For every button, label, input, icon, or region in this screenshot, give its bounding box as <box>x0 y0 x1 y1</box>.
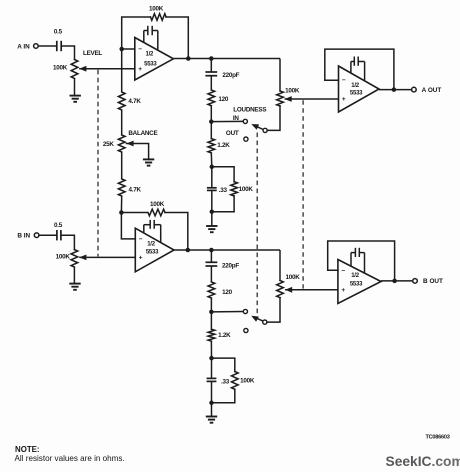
input terminal B IN <box>17 233 38 240</box>
capacitor C6 .33 (parallel B) <box>207 358 230 403</box>
ganging dashed link: level pots R1/R6 <box>97 70 99 257</box>
svg-text:1/2: 1/2 <box>351 273 360 279</box>
svg-text:220pF: 220pF <box>222 72 239 79</box>
wire R14 to parallel RC node <box>210 341 212 358</box>
potentiometer R4 25K BALANCE <box>103 130 158 152</box>
switch S1 arm with arrow (common to IN) <box>251 124 263 130</box>
svg-text:1/2: 1/2 <box>146 51 155 57</box>
svg-text:100K: 100K <box>285 274 300 281</box>
compensation capacitor on A1 <box>144 26 158 50</box>
svg-text:1.2K: 1.2K <box>218 332 231 339</box>
wire A1 output <box>173 58 280 60</box>
wire branch to R10 (top) <box>212 167 234 182</box>
svg-text:5533: 5533 <box>146 249 159 255</box>
svg-text:−: − <box>139 236 143 243</box>
svg-text:5533: 5533 <box>144 61 157 67</box>
svg-text:BALANCE: BALANCE <box>128 130 157 137</box>
resistor R2 100K feedback of A1 <box>149 6 166 21</box>
svg-text:B IN: B IN <box>17 233 30 240</box>
wire balance pot to R5 <box>121 152 123 179</box>
junction output to tone network B <box>209 248 214 253</box>
wire C4 to level pot R6 top <box>61 235 75 249</box>
capacitor C4 0.5 with value label <box>54 222 63 241</box>
svg-text:B OUT: B OUT <box>423 278 443 285</box>
svg-text:A OUT: A OUT <box>422 87 442 94</box>
svg-text:−: − <box>138 46 142 53</box>
ground at balance wiper <box>143 159 154 165</box>
wire 4.7K chain from A1 inverting node down <box>121 49 123 92</box>
svg-text:4.7K: 4.7K <box>129 186 142 193</box>
svg-text:0.5: 0.5 <box>54 222 63 229</box>
ground below R6 <box>69 284 80 290</box>
op-amp A1 1/2 5533 <box>135 38 174 81</box>
compensation capacitor on A4 <box>351 248 365 273</box>
output terminal B OUT <box>413 278 443 285</box>
junction parallel RC bottom A <box>210 209 215 214</box>
feedback wire of A4 (unity gain loop) <box>328 241 395 281</box>
output terminal A OUT <box>412 87 442 94</box>
svg-text:+: + <box>342 96 346 103</box>
wire S1 common to loudness pot R8 bottom <box>267 106 280 130</box>
svg-text:100K: 100K <box>56 253 71 260</box>
resistor R5 4.7K <box>118 179 141 196</box>
feedback loop wire of A2 (right side) <box>165 213 188 251</box>
wire R7 to switch node A <box>210 106 212 122</box>
wire C5 to R12 <box>210 266 212 282</box>
wire to ground (tone network B) <box>211 403 213 417</box>
svg-text:All resistor values are in ohm: All resistor values are in ohms. <box>15 454 125 463</box>
compensation capacitor on A2 <box>144 220 161 243</box>
ground of tone network B <box>206 417 217 423</box>
figure number TC086603 <box>425 434 449 440</box>
ground below R1 <box>70 96 81 102</box>
svg-text:OUT: OUT <box>226 130 239 137</box>
svg-text:100K: 100K <box>53 64 68 71</box>
ground of tone network A <box>206 226 217 232</box>
svg-text:LOUDNESS: LOUDNESS <box>233 106 266 113</box>
svg-text:1/2: 1/2 <box>351 83 360 89</box>
wire A3 output to terminal <box>379 89 412 91</box>
wire A2 output to R13 top <box>279 250 281 281</box>
svg-text:SeekIC.com: SeekIC.com <box>386 454 460 469</box>
wiper arrow of R1 to op-amp A1 non-inverting input (wire) <box>79 66 135 72</box>
potentiometer R13 100K (loudness B) <box>277 274 301 298</box>
capacitor C1 0.5 with value label <box>54 29 63 52</box>
svg-text:.33: .33 <box>219 187 228 194</box>
resistor R9 1.2K <box>208 139 230 153</box>
SeekIC.com watermark <box>386 454 460 469</box>
svg-text:+: + <box>139 255 143 262</box>
svg-text:25K: 25K <box>103 141 115 148</box>
svg-text:100K: 100K <box>150 201 165 208</box>
wire A IN to C1 <box>38 45 57 47</box>
svg-text:−: − <box>341 267 345 274</box>
R8 wiper arrow wire to buffer A3 + input <box>285 96 339 102</box>
svg-text:NOTE:: NOTE: <box>15 445 40 454</box>
note text <box>15 445 125 463</box>
wire branch to R15 (top) <box>212 358 235 371</box>
junction switch node A <box>209 119 214 124</box>
feedback loop wire of op-amp A1 (left+top) <box>122 17 151 49</box>
wire switch node A down to R9 <box>210 122 212 139</box>
svg-text:220pF: 220pF <box>222 262 239 269</box>
svg-text:100K: 100K <box>239 186 254 193</box>
switch S1 OUT contact <box>244 137 248 141</box>
switch S1 common contact <box>263 128 267 132</box>
wire R15 bottom branch <box>212 389 235 403</box>
wire node to A1 inverting input <box>122 48 135 50</box>
svg-text:100K: 100K <box>285 87 300 94</box>
svg-text:1/2: 1/2 <box>147 242 156 248</box>
svg-text:LEVEL: LEVEL <box>83 50 102 57</box>
capacitor C3 .33 (parallel A) <box>207 167 228 212</box>
resistor R15 100K (parallel B) <box>232 372 255 390</box>
wire R5 down to op-amp A2 feedback tap <box>120 196 122 213</box>
junction A3 output <box>392 87 397 92</box>
wire A1 output to R8 top <box>279 59 281 92</box>
wire node to switch S1 IN contact <box>211 120 243 122</box>
wire A4 output to terminal <box>381 280 413 282</box>
switch S2 IN contact <box>243 309 247 313</box>
svg-text:TC086603: TC086603 <box>425 434 449 440</box>
svg-text:0.5: 0.5 <box>54 29 63 36</box>
svg-text:.33: .33 <box>221 378 230 385</box>
potentiometer R6 100K (B level control) <box>56 250 78 267</box>
svg-text:1.2K: 1.2K <box>217 142 230 149</box>
capacitor C5 220pF <box>206 262 240 269</box>
switch S2 common contact <box>263 320 267 324</box>
svg-text:IN: IN <box>233 115 239 122</box>
feedback loop wire of A1 (right side) <box>166 17 188 59</box>
resistor R10 100K (parallel A) <box>231 182 254 196</box>
svg-text:A IN: A IN <box>17 43 30 50</box>
svg-text:4.7K: 4.7K <box>128 98 141 105</box>
wire A2 output <box>174 249 280 251</box>
op-amp A3 buffer 1/2 5533 <box>339 66 380 112</box>
wire R9 to parallel RC node <box>210 153 213 167</box>
svg-text:100K: 100K <box>240 378 255 385</box>
wire tap down and into A2 inverting input <box>121 213 135 239</box>
wire B IN to C4 <box>39 234 57 236</box>
svg-text:120: 120 <box>218 96 229 103</box>
svg-text:100K: 100K <box>149 6 164 13</box>
capacitor C2 220pF <box>205 72 239 79</box>
wire R12 to switch node B <box>210 298 212 312</box>
switch S2 OUT contact <box>244 328 248 332</box>
svg-text:120: 120 <box>222 289 233 296</box>
switch S2 arm with arrow (common to IN) <box>251 316 263 322</box>
svg-text:−: − <box>342 77 346 84</box>
node A1 inverting input junction <box>119 47 124 52</box>
resistor R11 100K feedback of A2 <box>121 201 165 216</box>
wire node to switch S2 IN contact <box>211 311 243 313</box>
wire R3 to balance pot <box>121 110 123 135</box>
junction A2 feedback tap <box>119 210 124 215</box>
wire to ground (tone network A) <box>211 212 213 226</box>
junction feedback-output A1 <box>186 56 191 61</box>
wire down to C5 <box>210 250 212 262</box>
wiper arrow of R6 to op-amp A2 non-inverting input (wire) <box>79 255 135 261</box>
wire S2 common to loudness pot R13 bottom <box>267 298 280 323</box>
resistor R14 1.2K <box>208 329 231 341</box>
labels LOUDNESS IN OUT <box>226 106 266 137</box>
junction parallel RC top B <box>209 356 214 361</box>
wire switch node B down to R14 <box>210 312 212 329</box>
potentiometer R8 100K (loudness A) <box>277 87 300 106</box>
balance wiper arrow and wire to ground <box>126 141 148 160</box>
svg-text:5533: 5533 <box>350 90 363 96</box>
junction A4 output <box>392 279 397 284</box>
wire R6 bottom to ground <box>73 267 75 284</box>
wire down to C2 <box>210 59 212 73</box>
wire C2 to R7 <box>210 76 212 90</box>
compensation capacitor on A3 <box>351 57 365 82</box>
junction parallel RC bottom B <box>209 401 214 406</box>
feedback wire of A3 (unity gain loop) <box>325 49 394 90</box>
switch S1 IN contact <box>243 119 247 123</box>
svg-text:+: + <box>341 287 345 294</box>
input terminal A IN <box>17 43 38 50</box>
potentiometer R1 100K LEVEL (A level control) <box>53 50 102 78</box>
junction parallel RC top A <box>210 165 215 170</box>
resistor R12 120 <box>208 282 233 298</box>
ganging dashed link: loudness pots R8/R13 <box>302 100 304 288</box>
R13 wiper arrow wire to buffer A4 + input <box>285 287 338 293</box>
junction switch node B <box>209 310 214 315</box>
op-amp A2 1/2 5533 <box>135 228 174 272</box>
svg-text:+: + <box>138 66 142 73</box>
wire R10 bottom branch <box>212 196 234 212</box>
junction output to tone network A <box>209 56 214 61</box>
junction feedback-output A2 <box>186 248 191 253</box>
resistor R7 120 <box>208 90 229 106</box>
wire C1 to level pot R1 top <box>61 46 74 60</box>
ganging dashed link: switches S1/S2 <box>256 133 258 318</box>
wire R1 bottom to ground <box>74 79 76 96</box>
op-amp A4 buffer 1/2 5533 <box>338 260 381 304</box>
resistor R3 4.7K <box>118 92 141 110</box>
svg-text:5533: 5533 <box>350 282 363 288</box>
